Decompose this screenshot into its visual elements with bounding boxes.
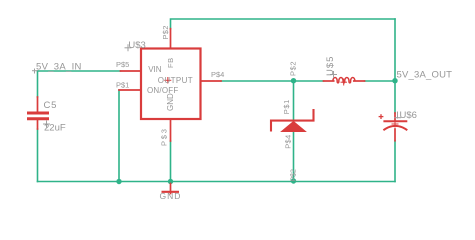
svg-text:C5: C5 (44, 100, 58, 111)
svg-text:GND: GND (160, 191, 182, 201)
svg-text:P$1: P$1 (282, 99, 291, 114)
svg-text:P$5: P$5 (116, 60, 129, 69)
svg-text:OUTPUT: OUTPUT (158, 76, 193, 85)
svg-text:U$6: U$6 (400, 110, 417, 121)
svg-text:P$2: P$2 (289, 61, 298, 76)
svg-text:GND: GND (166, 93, 175, 111)
svg-text:P$4: P$4 (284, 135, 293, 149)
svg-text:P$1: P$1 (116, 81, 129, 90)
svg-text:P$2: P$2 (290, 169, 297, 182)
svg-text:P$4: P$4 (211, 70, 224, 79)
svg-text:P$2: P$2 (161, 25, 170, 39)
svg-text:FB: FB (166, 57, 175, 68)
svg-text:5V_3A_OUT: 5V_3A_OUT (397, 70, 453, 81)
svg-text:P$3: P$3 (160, 127, 169, 146)
svg-text:5V_3A_IN: 5V_3A_IN (36, 62, 82, 73)
svg-text:VIN: VIN (148, 65, 162, 74)
svg-text:22uF: 22uF (44, 123, 66, 134)
svg-text:U$3: U$3 (128, 40, 145, 51)
svg-text:U$5: U$5 (325, 56, 336, 76)
